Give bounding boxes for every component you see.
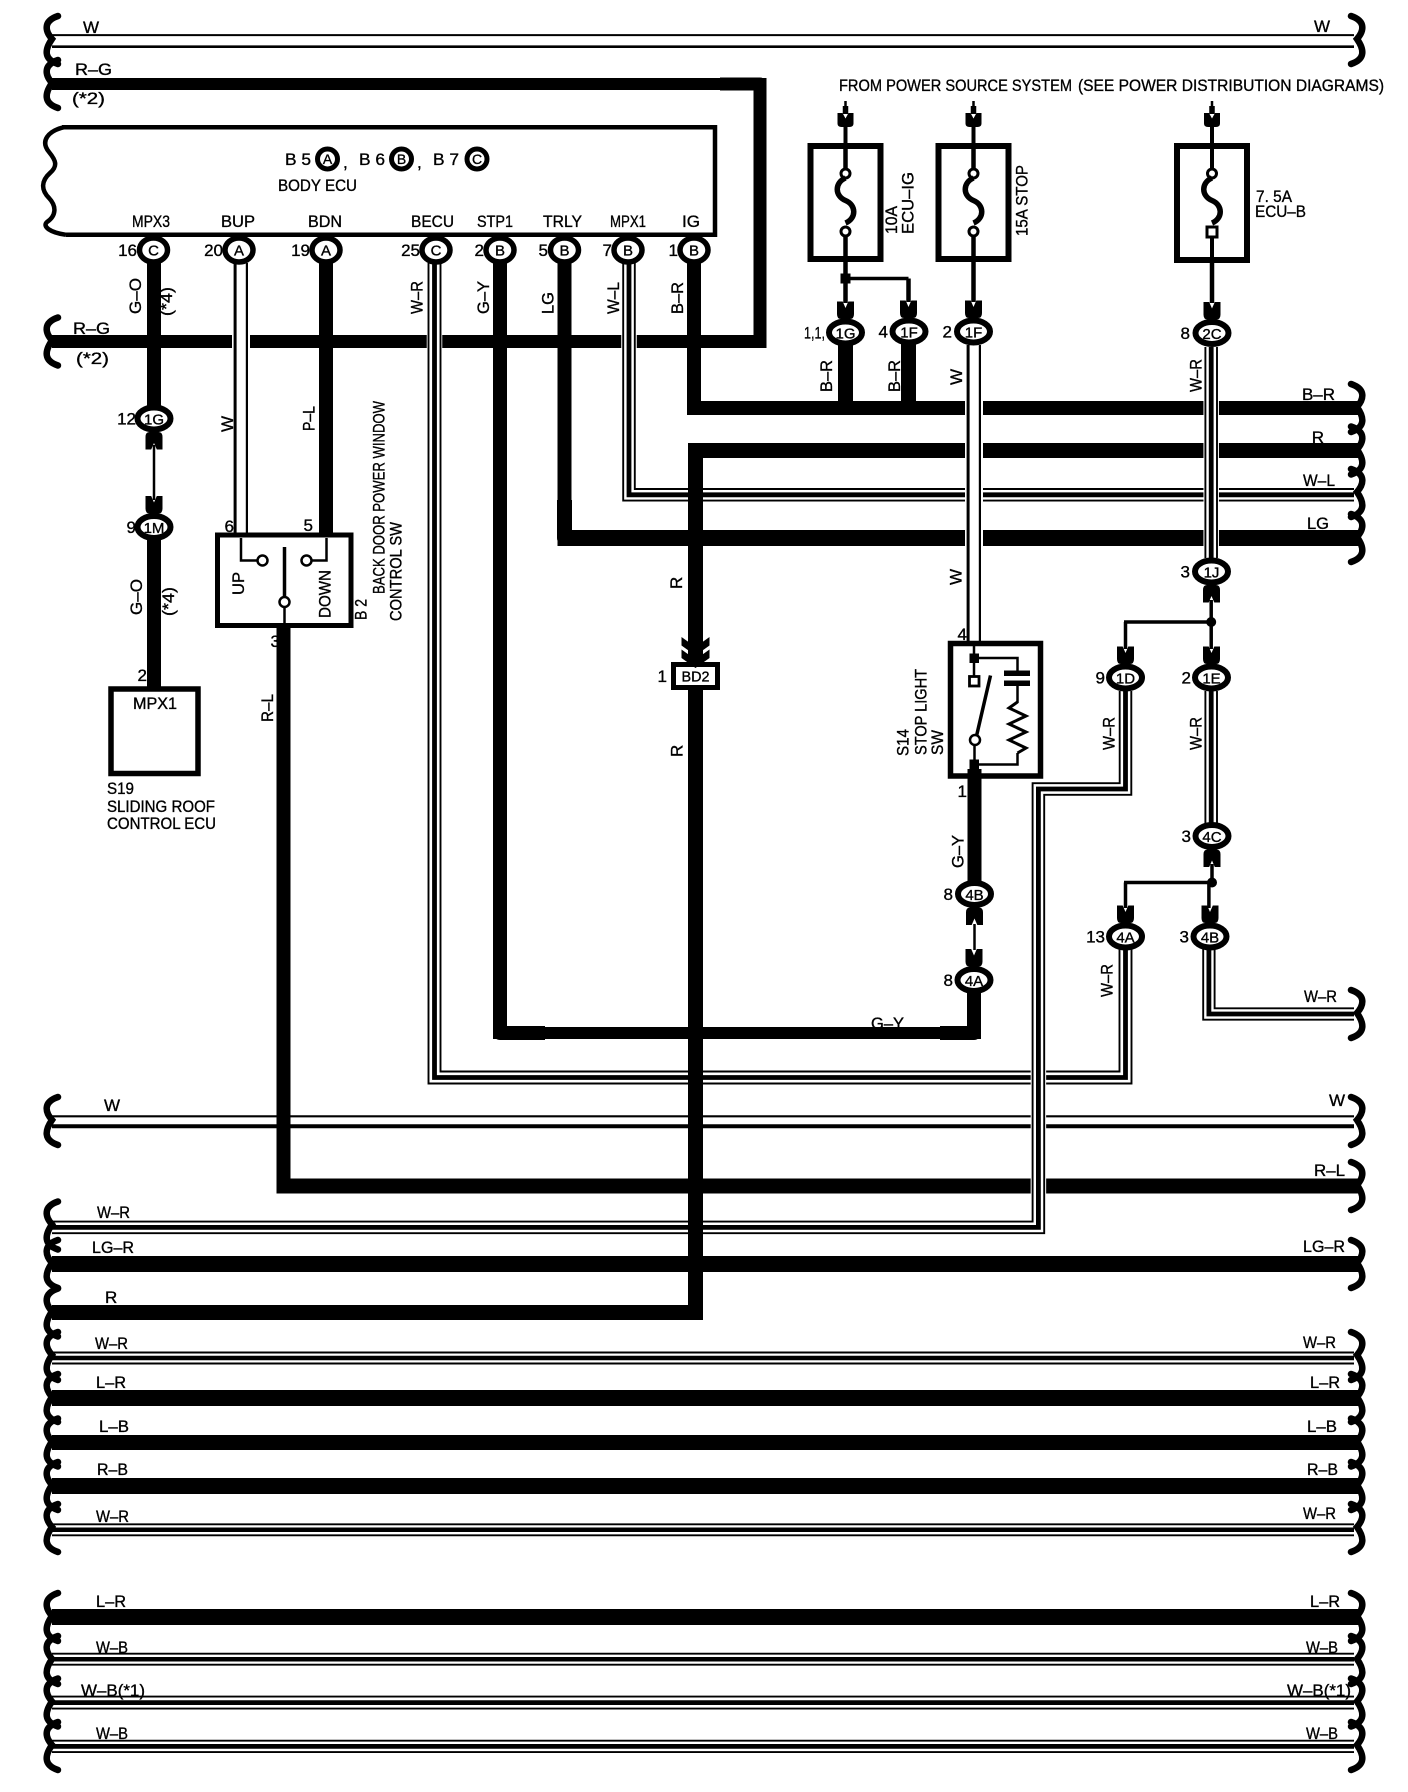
svg-text:W–R: W–R	[408, 281, 427, 314]
wire R-L from back door switch pin 3 down to R-L bus	[277, 623, 291, 1155]
break brace W-B bus left	[47, 1636, 58, 1684]
svg-text:,: ,	[417, 153, 422, 172]
wire W-R from connector 1E down to connector 4C	[1205, 691, 1217, 823]
svg-text:R–B: R–B	[97, 1460, 128, 1479]
rounded corner BD2 wire into bottom R bus	[655, 1270, 696, 1313]
svg-text:7: 7	[603, 241, 612, 260]
break brace LG-R bus left	[47, 1240, 58, 1288]
break brace W-B(*1) bus right	[1351, 1679, 1362, 1727]
double chevron arrow above BD2	[682, 637, 710, 668]
fuse 10A ECU-IG	[811, 146, 881, 259]
LG bus	[558, 530, 1360, 546]
svg-text:LG: LG	[1307, 514, 1329, 533]
wire below fuse 15A STOP to connector 1F	[971, 259, 976, 302]
svg-text:1F: 1F	[900, 325, 918, 342]
svg-text:R: R	[668, 745, 687, 757]
svg-text:W–B: W–B	[1306, 1638, 1338, 1657]
svg-text:B–R: B–R	[668, 282, 687, 314]
connector oval 1F (pin 4)	[893, 321, 926, 343]
svg-text:W–R: W–R	[97, 1203, 130, 1222]
svg-text:MPX1: MPX1	[610, 212, 646, 231]
connector oval 1J	[1195, 561, 1228, 583]
svg-text:W: W	[947, 369, 966, 385]
R bus	[688, 443, 1359, 458]
connector oval 1M	[138, 516, 171, 538]
arrow into connector 4A (pin 13)	[1117, 906, 1134, 924]
svg-text:CONTROL ECU: CONTROL ECU	[107, 814, 216, 833]
fuse 7.5A ECU-B	[1177, 146, 1247, 260]
link from connector 4C to junction node	[1210, 864, 1214, 883]
connector BD2 box	[674, 665, 718, 688]
svg-text:1: 1	[669, 241, 678, 260]
svg-text:G–O: G–O	[126, 278, 145, 314]
svg-text:G–O: G–O	[127, 579, 146, 615]
L-B bus	[52, 1435, 1359, 1450]
break brace L-B bus left	[47, 1419, 58, 1467]
svg-text:G–Y: G–Y	[474, 281, 493, 314]
svg-text:W: W	[1314, 17, 1330, 36]
break brace W-R bottom bus 2 right	[1351, 1504, 1362, 1552]
branch link to arrows of 1D and 1E	[1124, 622, 1213, 649]
svg-text:IG: IG	[682, 212, 700, 231]
L-R bus	[52, 1390, 1359, 1406]
sliding roof control ECU box S19	[111, 689, 198, 774]
svg-text:LG–R: LG–R	[1303, 1237, 1345, 1256]
svg-text:R: R	[667, 577, 686, 589]
junction node below 1J	[1206, 617, 1216, 627]
wire W-R from connector 4B(3) down and right to break	[1203, 949, 1354, 1020]
svg-text:ECU–B: ECU–B	[1255, 202, 1306, 221]
break brace R-B bus right	[1351, 1462, 1362, 1510]
break brace W-R bus right (4B)	[1351, 990, 1362, 1038]
wire W-B(*1) bus (striped)	[52, 1697, 1354, 1709]
arrow into connector 1F (pin 4)	[900, 301, 917, 319]
wire W-R from connector 2C down to connector 1J	[1205, 347, 1217, 558]
svg-text:B 5: B 5	[285, 150, 311, 169]
svg-text:8: 8	[944, 971, 953, 990]
svg-text:1E: 1E	[1202, 671, 1220, 688]
arrow into connector 2C	[1204, 302, 1221, 320]
svg-text:(*4): (*4)	[159, 587, 178, 616]
svg-text:UP: UP	[229, 572, 248, 595]
svg-text:(*2): (*2)	[76, 349, 109, 368]
svg-text:CONTROL SW: CONTROL SW	[387, 522, 406, 621]
svg-text:25: 25	[401, 241, 420, 260]
body ECU pin oval 16 C	[140, 238, 168, 262]
svg-text:1: 1	[658, 667, 667, 686]
L-R bus bottom	[52, 1609, 1359, 1625]
arrow into connector 1D	[1117, 647, 1134, 665]
rounded corner IG wire into B-R bus	[694, 370, 730, 408]
svg-text:12: 12	[117, 410, 136, 429]
svg-text:1,1,: 1,1,	[804, 324, 825, 343]
svg-text:R: R	[1312, 428, 1324, 447]
rounded corner STP1 wire into G-Y bus	[500, 990, 545, 1033]
svg-text:R–B: R–B	[1307, 1460, 1338, 1479]
wire W-R from pin BECU down, right and up into connector 4A(13)	[429, 263, 1132, 1084]
svg-text:B 2: B 2	[352, 599, 371, 620]
svg-text:G–Y: G–Y	[871, 1014, 904, 1033]
wire G-Y from connector 4A(8) down to G-Y bus	[967, 993, 981, 1022]
break brace R bus right	[1351, 427, 1362, 475]
svg-text:1M: 1M	[144, 520, 165, 537]
break brace LG-R bus right	[1351, 1240, 1362, 1288]
svg-text:A: A	[321, 243, 331, 260]
break brace W-L bus right	[1351, 469, 1362, 517]
connector oval 4A (pin 13)	[1109, 926, 1142, 948]
connector oval 4B (pin 3)	[1194, 926, 1227, 948]
wire G-O from connector 1M down to sliding roof ECU pin 2	[147, 540, 161, 689]
wire below fuse 7.5A ECU-B to connector 2C	[1210, 260, 1215, 303]
svg-text:5: 5	[304, 516, 313, 535]
junction node below 4C	[1207, 878, 1217, 888]
svg-text:S19: S19	[107, 779, 134, 798]
svg-text:4B: 4B	[965, 887, 983, 904]
break brace L-R bus right	[1351, 1374, 1362, 1422]
svg-text:B–R: B–R	[817, 360, 836, 392]
wire B-R from connector 1F down to B-R bus	[901, 344, 916, 415]
svg-text:A: A	[323, 151, 333, 167]
link wire between connectors 4B and 4A	[973, 924, 976, 950]
svg-text:W: W	[83, 18, 99, 37]
wire W bus middle (white wire double line)	[52, 1116, 1354, 1126]
wire W-B bus (striped)	[52, 1654, 1354, 1665]
body ECU letter circle B	[392, 149, 412, 169]
svg-text:3: 3	[1181, 563, 1190, 582]
svg-text:6: 6	[225, 517, 234, 536]
svg-text:W–R: W–R	[95, 1334, 128, 1353]
body ECU pin oval 2 B	[486, 238, 514, 262]
svg-text:19: 19	[291, 241, 310, 260]
svg-text:STP1: STP1	[477, 212, 513, 231]
svg-text:BUP: BUP	[221, 212, 255, 231]
svg-text:W–R: W–R	[1187, 359, 1206, 392]
svg-text:W–R: W–R	[1100, 717, 1119, 750]
break brace W bus mid right	[1351, 1097, 1362, 1145]
wire B-R from connector 1G down to B-R bus	[838, 344, 853, 415]
svg-text:P–L: P–L	[300, 406, 319, 431]
svg-text:R–L: R–L	[1314, 1161, 1345, 1180]
svg-text:2: 2	[475, 241, 484, 260]
back door power window control switch box B2	[218, 535, 352, 626]
svg-text:R–L: R–L	[258, 694, 277, 722]
svg-text:ECU–IG: ECU–IG	[899, 172, 918, 234]
rounded corner R bus down into BD2 wire	[696, 451, 741, 501]
svg-text:W–B(*1): W–B(*1)	[81, 1681, 145, 1700]
svg-text:R–G: R–G	[73, 319, 110, 338]
wire P-L from pin BDN down to back door switch pin 5	[319, 262, 333, 537]
svg-text:S14: S14	[894, 729, 913, 756]
break brace L-R bottom bus right	[1351, 1593, 1362, 1641]
stop light switch box S14	[951, 644, 1041, 777]
connector oval 1F (pin 2)	[957, 321, 990, 343]
break brace W bus top right	[1351, 16, 1362, 64]
svg-text:1G: 1G	[835, 326, 855, 343]
svg-text:W: W	[1329, 1091, 1345, 1110]
svg-text:B: B	[689, 243, 699, 260]
svg-text:R: R	[105, 1288, 117, 1307]
svg-text:4C: 4C	[1202, 829, 1221, 846]
svg-text:(*2): (*2)	[72, 89, 105, 108]
svg-text:R–G: R–G	[75, 60, 112, 79]
svg-text:W–B: W–B	[96, 1638, 128, 1657]
svg-text:2: 2	[943, 323, 952, 342]
break brace W bus top left	[47, 16, 58, 64]
svg-text:W: W	[947, 569, 966, 585]
wire W-R from connector 1D down, across and into W-R bus to left edge	[52, 691, 1131, 1233]
svg-text:20: 20	[204, 241, 223, 260]
wire B-R from pin IG down to B-R bus	[687, 262, 701, 390]
svg-text:DOWN: DOWN	[316, 570, 335, 618]
link wire between connectors 1G and 1M	[153, 445, 156, 500]
break brace W-R bottom bus 2 left	[47, 1504, 58, 1552]
R-G bus middle	[52, 335, 767, 348]
svg-text:C: C	[431, 243, 442, 260]
svg-text:1F: 1F	[965, 325, 983, 342]
svg-text:9: 9	[127, 518, 136, 537]
break brace R-L bus right	[1351, 1162, 1362, 1210]
svg-text:4A: 4A	[1116, 930, 1134, 947]
svg-text:W–R: W–R	[1303, 1333, 1336, 1352]
svg-text:5: 5	[539, 241, 548, 260]
junction and link below fuse 10A	[841, 259, 909, 303]
svg-text:1J: 1J	[1204, 565, 1220, 582]
body ECU pin oval 19 A	[312, 238, 340, 262]
wire LG from pin TRLY down to LG bus	[558, 262, 572, 515]
break brace R bus bottom left	[47, 1289, 58, 1337]
break brace L-R bus left	[47, 1374, 58, 1422]
body ECU letter circle A	[318, 149, 338, 169]
wire G-O from pin MPX3 down to connector 1G	[147, 262, 161, 407]
break brace W-R bus left	[47, 1202, 58, 1250]
svg-text:3: 3	[1180, 928, 1189, 947]
svg-text:4: 4	[958, 625, 967, 644]
R-B bus	[52, 1478, 1359, 1494]
svg-text:16: 16	[118, 241, 137, 260]
arrow up into connector 4B (stop light chain)	[966, 908, 983, 926]
svg-text:W–R: W–R	[96, 1507, 129, 1526]
LG-R bus	[52, 1256, 1359, 1272]
break brace W-B bus right	[1351, 1636, 1362, 1684]
svg-text:4B: 4B	[1201, 930, 1219, 947]
R-G bus top	[52, 78, 767, 90]
connector oval 1E	[1195, 667, 1228, 689]
svg-text:W–R: W–R	[1098, 964, 1117, 997]
svg-text:4A: 4A	[965, 973, 983, 990]
svg-text:2C: 2C	[1202, 326, 1221, 343]
svg-text:W–B: W–B	[96, 1724, 128, 1743]
power source arrow above fuse 15A	[966, 101, 982, 147]
wire G-Y from pin STP1 down to G-Y bus	[493, 262, 507, 1015]
connector oval 1G (MPX3 chain)	[138, 408, 171, 430]
svg-text:TRLY: TRLY	[543, 212, 582, 231]
svg-text:1G: 1G	[144, 412, 164, 429]
svg-text:,: ,	[343, 153, 348, 172]
svg-text:L–R: L–R	[1310, 1373, 1340, 1392]
svg-text:W–B(*1): W–B(*1)	[1287, 1681, 1351, 1700]
svg-text:LG: LG	[539, 292, 558, 314]
break brace R-B bus left	[47, 1462, 58, 1510]
body ECU pin oval 20 A	[225, 238, 253, 262]
svg-text:W–L: W–L	[1303, 471, 1335, 490]
body ECU pin oval 1 B	[680, 238, 708, 262]
wire W-B bottom bus (striped)	[52, 1741, 1354, 1752]
break brace B-R bus right	[1351, 384, 1362, 432]
svg-text:B 6: B 6	[359, 150, 385, 169]
svg-text:W–R: W–R	[1304, 987, 1337, 1006]
connector oval 4B (stop light chain)	[958, 883, 991, 905]
break brace R-G bus mid left	[47, 318, 58, 366]
svg-text:BD2: BD2	[682, 669, 710, 686]
svg-text:(*4): (*4)	[157, 287, 176, 316]
break brace W-R bottom bus 1 left	[47, 1332, 58, 1380]
svg-text:L–R: L–R	[96, 1592, 126, 1611]
fuse 15A STOP	[939, 146, 1009, 259]
wire W-R bottom bus 1 (striped)	[52, 1353, 1354, 1364]
break brace L-R bottom bus left	[47, 1593, 58, 1641]
power source arrow above fuse 10A	[838, 101, 854, 147]
break brace W-B bottom bus left	[47, 1722, 58, 1770]
connector oval 4C	[1196, 825, 1229, 847]
body ECU pin oval 5 B	[551, 238, 579, 262]
arrow into connector 1G (fuse row)	[837, 302, 854, 320]
svg-text:W–R: W–R	[1303, 1504, 1336, 1523]
arrow into connector 4A (stop light chain)	[966, 949, 983, 967]
arrow up into connector 1J	[1203, 585, 1220, 603]
op BODY ECU box	[43, 127, 715, 235]
branch link to arrows of 4A(13) and 4B(3)	[1124, 883, 1213, 909]
svg-text:W–B: W–B	[1306, 1724, 1338, 1743]
svg-text:LG–R: LG–R	[92, 1238, 134, 1257]
svg-text:A: A	[234, 243, 244, 260]
wire W bus top (white wire double line)	[52, 35, 1354, 47]
svg-text:8: 8	[1181, 324, 1190, 343]
svg-text:L–R: L–R	[96, 1373, 126, 1392]
svg-text:15A STOP: 15A STOP	[1013, 165, 1032, 236]
svg-text:L–B: L–B	[99, 1417, 129, 1436]
svg-text:B: B	[623, 243, 633, 260]
R-L bus	[277, 1179, 1360, 1194]
wire R from R bus down through BD2 to bottom R bus	[688, 468, 703, 1295]
svg-text:SW: SW	[928, 730, 947, 755]
break brace W bus mid left	[47, 1097, 58, 1145]
svg-text:1D: 1D	[1116, 671, 1135, 688]
rounded corner R-L wire into R-L bus	[284, 1140, 331, 1186]
R bus bottom	[52, 1305, 703, 1320]
link from connector 1J to junction node	[1209, 600, 1213, 622]
svg-text:B: B	[397, 151, 406, 167]
svg-text:B 7: B 7	[433, 150, 459, 169]
svg-text:L–R: L–R	[1310, 1592, 1340, 1611]
arrow up into connector 1G (MPX3 chain)	[146, 432, 163, 450]
svg-text:W–R: W–R	[1187, 717, 1206, 750]
body ECU letter circle C	[467, 149, 487, 169]
break brace LG bus right	[1351, 514, 1362, 562]
svg-text:W: W	[104, 1096, 120, 1115]
svg-text:C: C	[148, 243, 159, 260]
wire W-R bottom bus 2 (striped)	[52, 1524, 1354, 1535]
svg-text:MPX1: MPX1	[133, 694, 177, 713]
svg-text:C: C	[472, 151, 482, 167]
svg-text:W–L: W–L	[604, 282, 623, 314]
rounded corner G-Y bus up into connector 4A	[940, 1000, 974, 1033]
arrow into connector 1M	[146, 496, 163, 514]
body ECU pin oval 25 C	[422, 238, 450, 262]
svg-text:BDN: BDN	[308, 212, 342, 231]
break brace R-G bus top left	[47, 60, 58, 108]
rounded corner TRLY wire into LG bus	[565, 500, 606, 538]
power source arrow above fuse 7.5A	[1204, 101, 1220, 147]
connector oval 2C	[1196, 322, 1229, 344]
break brace L-B bus right	[1351, 1419, 1362, 1467]
wire G-Y stop light switch pin 1 down to connector 4B	[968, 769, 982, 882]
svg-text:(SEE POWER DISTRIBUTION DIAGRA: (SEE POWER DISTRIBUTION DIAGRAMS)	[1078, 76, 1384, 95]
wire W from connector 1F(2) down to stop light switch pin 4	[968, 345, 980, 645]
svg-text:W: W	[218, 416, 237, 432]
svg-text:MPX3: MPX3	[132, 212, 170, 231]
svg-text:BECU: BECU	[411, 212, 454, 231]
svg-text:3: 3	[271, 632, 280, 651]
svg-text:2: 2	[1182, 669, 1191, 688]
body ECU pin oval 7 B	[614, 238, 642, 262]
svg-text:FROM POWER SOURCE SYSTEM: FROM POWER SOURCE SYSTEM	[839, 76, 1072, 95]
svg-text:B–R: B–R	[1302, 385, 1335, 404]
svg-text:2: 2	[138, 666, 147, 685]
arrow into connector 1E	[1203, 647, 1220, 665]
svg-text:9: 9	[1096, 669, 1105, 688]
wire W from pin BUP down to back door switch pin 6	[235, 263, 247, 537]
arrow up into connector 4C	[1204, 850, 1221, 868]
connector oval 1G (fuse row)	[829, 322, 862, 344]
break brace W-B bottom bus right	[1351, 1722, 1362, 1770]
arrow into connector 4B (pin 3)	[1202, 906, 1219, 924]
break brace W-B(*1) bus left	[47, 1679, 58, 1727]
wire R-G vertical from top R-G bus down to mid R-G bus	[754, 100, 767, 346]
svg-text:8: 8	[944, 885, 953, 904]
svg-text:G–Y: G–Y	[949, 835, 968, 868]
wire W-L from pin MPX1 down then right to break (W-L bus)	[623, 263, 1354, 501]
B-R bus	[687, 401, 1359, 415]
G-Y bus	[493, 1027, 981, 1039]
connector oval 4A (stop light chain)	[958, 969, 991, 991]
connector oval 1D	[1109, 667, 1142, 689]
break brace W-R bottom bus 1 right	[1351, 1332, 1362, 1380]
svg-text:13: 13	[1086, 928, 1105, 947]
svg-text:1: 1	[958, 782, 967, 801]
svg-text:L–B: L–B	[1307, 1417, 1337, 1436]
svg-text:B–R: B–R	[885, 360, 904, 392]
svg-text:B: B	[495, 243, 505, 260]
svg-text:3: 3	[1182, 827, 1191, 846]
rounded corner R-G top bus into vertical	[720, 84, 760, 125]
svg-text:B: B	[559, 243, 569, 260]
arrow into connector 1F (pin 2)	[965, 301, 982, 319]
svg-text:BODY ECU: BODY ECU	[278, 176, 357, 195]
svg-text:4: 4	[879, 323, 888, 342]
